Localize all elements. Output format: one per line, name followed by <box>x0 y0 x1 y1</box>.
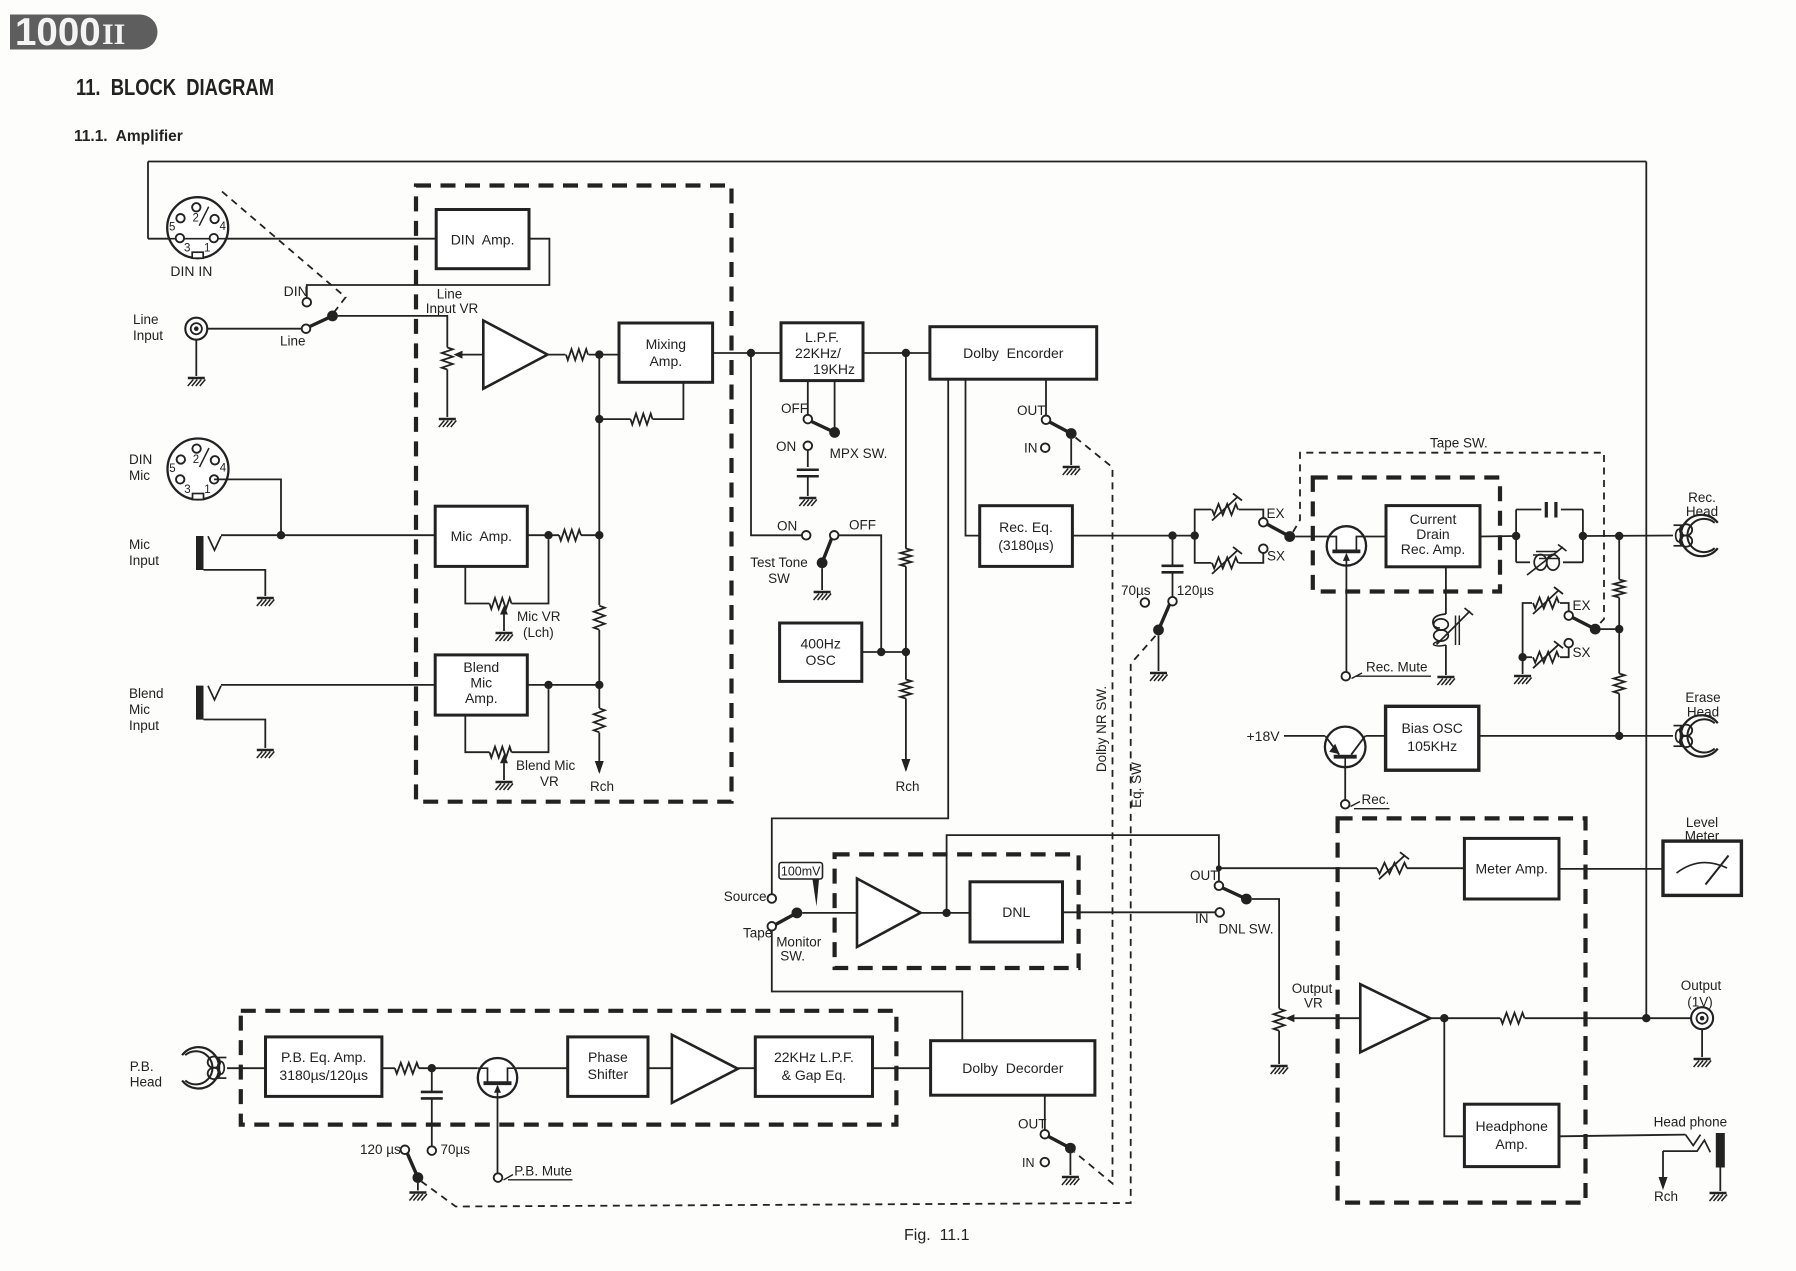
svg-text:Rec.: Rec. <box>1362 792 1390 807</box>
svg-text:Mixing: Mixing <box>646 336 686 352</box>
label OUT (enc NR) <box>1017 403 1046 418</box>
heading 11. BLOCK DIAGRAM <box>76 74 274 100</box>
svg-text:SX: SX <box>1267 549 1285 564</box>
switch lever Dolby NR SW (rec) <box>1050 422 1077 439</box>
label Line Input VR <box>426 287 479 317</box>
svg-text:Mic VR: Mic VR <box>517 609 561 624</box>
svg-text:DIN: DIN <box>129 452 152 467</box>
contact DNL SW IN <box>1215 908 1224 917</box>
connector DIN Mic <box>168 439 229 500</box>
label Erase Head <box>1685 690 1720 720</box>
label Rec. Mute <box>1352 660 1432 679</box>
op-amp playback amplifier <box>672 1035 738 1103</box>
svg-text:VR: VR <box>1304 996 1323 1011</box>
svg-text:Dolby Decorder: Dolby Decorder <box>962 1060 1063 1076</box>
ground below Output jack <box>1694 1059 1712 1067</box>
svg-text:Output: Output <box>1292 981 1333 996</box>
wire SX resistor to SX contact <box>1239 553 1264 563</box>
svg-text:19KHz: 19KHz <box>813 361 855 377</box>
wire output amp to resistor <box>1430 1017 1500 1019</box>
switch lever EX/SX (bias) <box>1573 618 1601 635</box>
wire Dolby Enc to monitor Source <box>772 379 948 894</box>
junction headphone tap <box>1440 1014 1448 1022</box>
wire 400Hz OSC output <box>862 651 906 653</box>
wire Blend jack to Blend Mic Amp <box>221 684 435 686</box>
wire Dolby Enc to Rec.Eq <box>966 379 980 535</box>
label OUT (DNL SW) <box>1190 868 1219 883</box>
junction mixing output to test tone <box>747 349 755 357</box>
label DIN Mic <box>129 452 152 483</box>
wire P.B. FET to Phase Shifter <box>517 1067 568 1069</box>
wire Current Drain Amp to LC tank <box>1480 535 1516 538</box>
wire selector wiper to Line Input VR <box>338 316 448 348</box>
svg-text:Mic: Mic <box>129 468 150 483</box>
label Blend Mic Input <box>129 686 164 733</box>
wire enc NR wiper to ground <box>1070 439 1072 465</box>
caption Fig. 11.1 <box>904 1227 970 1244</box>
switch lever DNL SW <box>1223 888 1252 904</box>
ground below Output VR <box>1271 1066 1289 1074</box>
variable resistor meter cal <box>1377 852 1409 879</box>
svg-text:SW: SW <box>768 571 790 586</box>
wire tap to resistor upper <box>1618 536 1620 580</box>
label P.B. Mute <box>504 1164 573 1181</box>
ground below headphone plug <box>1710 1193 1728 1201</box>
wire headphone Rch contact down <box>1662 1151 1664 1177</box>
svg-text:DIN: DIN <box>284 283 308 299</box>
contact EX (rec eq) <box>1259 518 1268 527</box>
label Source <box>724 889 767 904</box>
wire Meter Amp to Level Meter <box>1559 868 1663 870</box>
wire Line Input VR to ground <box>446 370 448 418</box>
svg-text:IN: IN <box>1195 911 1209 926</box>
wire Mic jack to Mic Amp <box>221 534 435 536</box>
svg-text:3: 3 <box>184 243 190 255</box>
svg-text:Amp.: Amp. <box>1495 1136 1528 1152</box>
svg-text:3180µs/120µs: 3180µs/120µs <box>279 1067 368 1083</box>
svg-text:& Gap Eq.: & Gap Eq. <box>782 1067 847 1083</box>
wire eq wiper to rec FET <box>1295 536 1327 538</box>
svg-text:OFF: OFF <box>781 401 808 416</box>
op-amp line amplifier <box>483 321 547 389</box>
svg-text:OFF: OFF <box>849 518 876 533</box>
svg-text:Rec.: Rec. <box>1688 490 1716 505</box>
wire Mic VR to junction <box>512 539 549 603</box>
wire SX branch (rec eq) <box>1195 536 1212 563</box>
svg-text:ON: ON <box>777 519 797 534</box>
resistor line amp output <box>566 349 588 360</box>
label OUT (dec NR) <box>1018 1117 1047 1132</box>
svg-text:OUT: OUT <box>1018 1117 1047 1132</box>
dashed link Eq.SW <box>422 636 1156 1207</box>
resistor P.B. eq output <box>395 1063 419 1074</box>
heading 11.1. Amplifier <box>74 128 183 145</box>
wire Output VR to ground <box>1278 1031 1280 1064</box>
wire resistor to bias select node <box>1618 598 1620 630</box>
switch lever P.B. eq SW <box>408 1154 424 1183</box>
jack Output (1V) RCA <box>1691 1007 1713 1029</box>
wire LC tank right <box>1582 510 1584 563</box>
ground below P.B. eq switch <box>409 1193 427 1201</box>
label DIN <box>284 283 308 299</box>
junction rec head resistor tap <box>1615 532 1623 540</box>
label P.B. Head <box>130 1059 162 1090</box>
svg-text:100mV: 100mV <box>781 865 821 879</box>
svg-text:Tape SW.: Tape SW. <box>1430 436 1488 451</box>
label Blend Mic VR <box>516 758 576 789</box>
label OFF (MPX) <box>781 401 808 416</box>
dashed mechanical link DIN selector <box>222 192 346 314</box>
label Line Input <box>133 312 163 343</box>
wire resistor lower to erase line <box>1618 694 1620 736</box>
wire Output jack to ground <box>1701 1029 1703 1057</box>
wire Current Drain Amp to bias trap <box>1445 567 1447 614</box>
contact Rec. (bias enable) <box>1341 800 1350 809</box>
wire P.B. FET gate to mute contact <box>497 1097 499 1173</box>
dashed box playback section <box>241 1011 897 1125</box>
wire right output bus down to Output jack node <box>1645 162 1647 1019</box>
wire eq cap to 120us contact <box>1172 572 1174 597</box>
wiper arrow Line Input VR <box>454 351 484 359</box>
resistor bias feed lower <box>1614 674 1625 694</box>
label Output VR <box>1292 981 1333 1011</box>
svg-text:Rch: Rch <box>1654 1189 1678 1204</box>
dashed box DNL section <box>835 854 1079 968</box>
wire DIN Amp output to DIN contact <box>307 239 550 298</box>
wire Mic jack sleeve to ground <box>204 570 266 596</box>
contact SX (bias) <box>1564 639 1573 648</box>
potentiometer Mic VR <box>490 598 512 609</box>
svg-text:Current: Current <box>1410 511 1457 527</box>
wire +18V to bias transistor <box>1284 735 1325 737</box>
resistor Lch bus upper <box>594 606 605 630</box>
switch lever input selector to Line Input VR <box>310 311 338 327</box>
svg-text:Shifter: Shifter <box>588 1066 629 1082</box>
junction on erase/bias line <box>1615 732 1623 740</box>
svg-text:105KHz: 105KHz <box>1407 738 1457 754</box>
svg-text:2: 2 <box>193 454 199 466</box>
capacitor LC tank <box>1546 502 1556 518</box>
svg-text:70µs: 70µs <box>1121 583 1151 598</box>
svg-text:Line: Line <box>437 287 463 302</box>
block P.B. Eq. Amp <box>266 1037 382 1097</box>
label Mic VR (Lch) <box>517 609 561 640</box>
wire Mic Amp output <box>527 534 559 536</box>
junction output bus node <box>1642 1014 1650 1022</box>
contact Dolby NR IN (pb) <box>1041 1158 1050 1167</box>
junction feedback on Lch bus <box>595 415 603 423</box>
wire DIN Mic pin 1 to mic line <box>214 479 281 535</box>
dashed box record head section <box>1313 478 1500 592</box>
label Line <box>280 334 306 349</box>
svg-text:Output: Output <box>1681 978 1722 993</box>
contact Source (monitor) <box>768 894 777 903</box>
svg-text:3: 3 <box>184 484 190 496</box>
wire headphone plug to ground <box>1719 1168 1721 1192</box>
wire cap branch upper (P.B.) <box>431 1068 433 1092</box>
variable resistor EX (rec eq) <box>1212 494 1242 521</box>
wire P.B. eq wiper to ground <box>417 1183 419 1191</box>
svg-text:Mic Amp.: Mic Amp. <box>451 528 512 544</box>
dashed box record/mic amplifier section <box>416 186 732 802</box>
resistor Lch bus lower <box>594 708 605 732</box>
svg-text:22KHz L.P.F.: 22KHz L.P.F. <box>774 1049 854 1065</box>
resistor Rch bus upper <box>900 549 911 567</box>
junction OSC on Rch bus <box>902 648 910 656</box>
svg-text:II: II <box>102 18 125 51</box>
svg-text:Rec. Amp.: Rec. Amp. <box>1401 541 1466 557</box>
wire Rch bus segment 2 <box>905 566 907 679</box>
svg-text:DNL SW.: DNL SW. <box>1219 922 1274 937</box>
label 120us (rec eq) <box>1177 583 1214 598</box>
junction DIN mic / mic jack <box>277 531 285 539</box>
wire Phase Shifter to amp <box>648 1067 672 1069</box>
block Dolby Decorder <box>931 1041 1095 1096</box>
jack Mic Input (phone) <box>196 536 221 570</box>
block Headphone Amp <box>1464 1104 1559 1166</box>
label 70us (rec eq) <box>1121 583 1151 598</box>
wire mixing amp feedback <box>653 382 684 419</box>
svg-text:Bias OSC: Bias OSC <box>1401 720 1462 736</box>
svg-text:70µs: 70µs <box>441 1142 471 1157</box>
svg-text:Tape: Tape <box>743 926 772 941</box>
switch lever Monitor SW <box>776 908 803 925</box>
wire eq wiper to ground <box>1158 635 1160 671</box>
wire Mic VR loop <box>465 566 489 603</box>
wire eq cap branch upper <box>1172 536 1174 566</box>
svg-text:Mic: Mic <box>129 537 150 552</box>
svg-text:Erase: Erase <box>1685 690 1720 705</box>
dashed box Tape SW outline <box>1293 453 1604 625</box>
svg-text:+18V: +18V <box>1247 728 1281 744</box>
wire bias transistor to Bias OSC <box>1366 735 1386 737</box>
svg-text:Drain: Drain <box>1416 526 1449 542</box>
resistor output <box>1501 1013 1525 1024</box>
svg-text:Source: Source <box>724 889 767 904</box>
wire DNL output to IN contact <box>1063 911 1216 913</box>
callout 100mV <box>779 863 823 907</box>
label DNL SW. <box>1219 922 1274 937</box>
contact DIN of input selector <box>303 298 312 307</box>
svg-text:120µs: 120µs <box>1177 583 1214 598</box>
svg-text:P.B.: P.B. <box>130 1059 154 1074</box>
wire cap to 70us contact (P.B.) <box>431 1099 433 1147</box>
wire resistor to P.B. mute FET <box>419 1067 478 1069</box>
contact Test Tone OFF <box>830 531 839 540</box>
svg-text:OUT: OUT <box>1190 868 1219 883</box>
wire line amp output <box>548 354 566 356</box>
wire Blend VR loop <box>465 715 489 752</box>
head Rec. Head <box>1674 515 1718 556</box>
svg-text:Line: Line <box>280 334 306 349</box>
contact EX (bias) <box>1564 611 1573 620</box>
label Head phone <box>1654 1115 1728 1130</box>
contact P.B. Mute <box>494 1173 503 1182</box>
svg-text:IN: IN <box>1024 441 1038 456</box>
jack Line Input (RCA) <box>185 318 207 340</box>
wire DNL amp to DNL <box>921 912 970 914</box>
wire bias EX branch <box>1523 603 1532 657</box>
svg-text:Rch: Rch <box>590 779 614 794</box>
head P.B. Head <box>182 1047 226 1088</box>
wire MPX ON to capacitor <box>807 450 809 467</box>
label ON (MPX) <box>776 439 796 454</box>
svg-text:5: 5 <box>169 222 175 234</box>
wire feedback to Lch bus <box>599 418 630 420</box>
wire Blend jack sleeve to ground <box>204 720 266 749</box>
wire Blend VR to junction <box>512 689 549 752</box>
variable resistor EX (bias) <box>1533 587 1563 614</box>
wire mic resistor to Rch bus <box>581 534 599 536</box>
label 120us (P.B.) <box>360 1142 401 1157</box>
svg-text:120 µs: 120 µs <box>360 1142 401 1157</box>
block Phase Shifter <box>568 1037 648 1097</box>
contact SX (rec eq) <box>1259 544 1268 553</box>
resistor rec head damp upper <box>1614 580 1625 598</box>
label Tape SW. <box>1430 436 1488 451</box>
switch lever MPX SW <box>812 422 840 438</box>
svg-text:Blend: Blend <box>463 659 499 675</box>
resistor Rch bus lower <box>900 680 911 699</box>
contact 70us (rec eq) <box>1141 598 1150 607</box>
wire Test Tone OFF to 400Hz OSC <box>838 535 881 652</box>
svg-text:Amp.: Amp. <box>649 353 682 369</box>
wire top border from DIN IN to output bus <box>148 161 1646 163</box>
wire LC tank top with capacitor <box>1516 509 1583 511</box>
ground below Test Tone SW <box>814 592 832 600</box>
svg-text:IN: IN <box>1022 1156 1035 1170</box>
svg-text:P.B. Mute: P.B. Mute <box>514 1164 572 1179</box>
wire resistor to mixing amp <box>589 354 620 356</box>
jack Headphone contacts <box>1663 1135 1710 1153</box>
svg-text:ON: ON <box>776 439 796 454</box>
junction bias select node <box>1615 625 1623 633</box>
potentiometer Output VR <box>1274 1009 1285 1031</box>
junction P.B. eq cap tap <box>428 1064 436 1072</box>
ground below Mic jack <box>257 598 275 606</box>
junction DNL bypass <box>942 909 950 917</box>
contact MPX ON <box>804 442 813 451</box>
svg-text:MPX SW.: MPX SW. <box>830 446 888 461</box>
svg-text:11.1. Amplifier: 11.1. Amplifier <box>74 128 183 145</box>
block Dolby Encorder <box>930 327 1097 380</box>
transistor P.B. mute FET <box>478 1058 517 1097</box>
wire bias SX resistor to contact <box>1560 647 1569 657</box>
wire P.B. Eq Amp output <box>382 1067 395 1069</box>
block Mixing Amp <box>619 323 713 382</box>
wire Rch bus segment 3 <box>905 699 907 771</box>
ground below enc NR switch <box>1063 467 1081 475</box>
label Output (1V) <box>1681 978 1722 1010</box>
wire EX branch (rec eq) <box>1195 510 1212 536</box>
junction blend VR top <box>544 681 552 689</box>
svg-text:SW.: SW. <box>780 949 805 964</box>
wire monitor wiper to DNL amp <box>802 912 857 914</box>
contact Dolby NR OUT (pb) <box>1041 1130 1050 1139</box>
wire LC tank bottom with inductor <box>1516 561 1583 563</box>
svg-text:Input VR: Input VR <box>426 301 479 316</box>
wire meter tap to variable resistor <box>1219 867 1377 869</box>
label EX (rec eq) <box>1267 506 1285 521</box>
dashed link Dolby NR SW vertical <box>1075 438 1113 1184</box>
label Rch (main bus) <box>895 779 919 794</box>
wire LPF to MPX OFF contact <box>807 381 809 415</box>
resistor mic output <box>559 530 581 541</box>
label EX (bias) <box>1573 598 1591 613</box>
contact MPX OFF <box>804 415 813 424</box>
junction blend output on bus <box>595 681 603 689</box>
op-amp output amplifier <box>1360 984 1430 1052</box>
label MPX SW. <box>830 446 888 461</box>
wiper arrow Blend VR <box>500 754 508 780</box>
junction eq network node <box>1191 531 1199 539</box>
junction line/mix node <box>595 350 603 358</box>
arrow Rch (headphone) <box>1659 1177 1668 1190</box>
ground below Mic VR wiper <box>496 633 514 641</box>
svg-text:Rch: Rch <box>895 779 919 794</box>
variable inductor bias trap <box>1433 608 1473 646</box>
svg-text:P.B. Eq. Amp.: P.B. Eq. Amp. <box>281 1049 366 1065</box>
wire bias transistor base to Rec contact <box>1344 767 1346 800</box>
svg-text:Meter: Meter <box>1685 829 1720 844</box>
wire EX resistor to EX contact <box>1239 510 1264 519</box>
svg-text:Meter Amp.: Meter Amp. <box>1476 861 1548 877</box>
svg-text:Phase: Phase <box>588 1049 628 1065</box>
svg-text:DIN IN: DIN IN <box>170 263 212 279</box>
svg-text:Head: Head <box>1686 504 1718 519</box>
svg-text:Fig. 11.1: Fig. 11.1 <box>904 1227 970 1244</box>
head Erase Head <box>1674 715 1718 756</box>
label Dolby NR SW. <box>1094 686 1109 772</box>
label Rch (mic bus) <box>590 779 614 794</box>
label OFF (Test Tone) <box>849 518 876 533</box>
junction mixing output to Rch bus <box>902 349 910 357</box>
wire P.B. Head to P.B. Eq Amp <box>227 1067 266 1069</box>
label SX (bias) <box>1573 645 1591 660</box>
label Test Tone SW <box>750 555 808 586</box>
wire dec NR wiper to ground <box>1069 1154 1071 1176</box>
block Meter Amp <box>1464 838 1559 899</box>
wire Rch bus segment 1 <box>905 353 907 549</box>
wire Line Input jack to Line contact <box>207 328 301 330</box>
transistor bias oscillator <box>1325 727 1366 768</box>
potentiometer Line Input VR <box>442 348 453 370</box>
svg-text:4: 4 <box>220 463 227 475</box>
wire DNL bypass to DNL SW OUT <box>947 835 1219 913</box>
contact DNL SW OUT <box>1215 882 1224 891</box>
transistor rec mute FET <box>1327 526 1366 565</box>
contact Tape (monitor) <box>768 922 777 931</box>
wire headphone branch <box>1444 1018 1464 1136</box>
label Level Meter <box>1685 815 1720 844</box>
label Tape <box>743 926 772 941</box>
svg-text:Test Tone: Test Tone <box>750 555 808 570</box>
capacitor MPX <box>797 470 819 477</box>
svg-text:Head: Head <box>1687 705 1719 720</box>
label Mic Input <box>129 537 159 568</box>
contact 70us (P.B.) <box>428 1146 437 1155</box>
contact Rec. Mute <box>1342 672 1351 681</box>
junction LC right <box>1579 532 1587 540</box>
ground below bias EX/SX <box>1514 676 1532 684</box>
label Rec. (bias enable) <box>1351 792 1390 809</box>
svg-text:OSC: OSC <box>806 652 836 668</box>
wire bias select node to resistor lower <box>1618 629 1620 673</box>
wire bias wiper to node <box>1601 628 1620 630</box>
svg-text:Blend: Blend <box>129 686 164 701</box>
wiper arrow Output VR <box>1285 1014 1360 1022</box>
wire LPF to Dolby Decorder <box>873 1067 931 1069</box>
